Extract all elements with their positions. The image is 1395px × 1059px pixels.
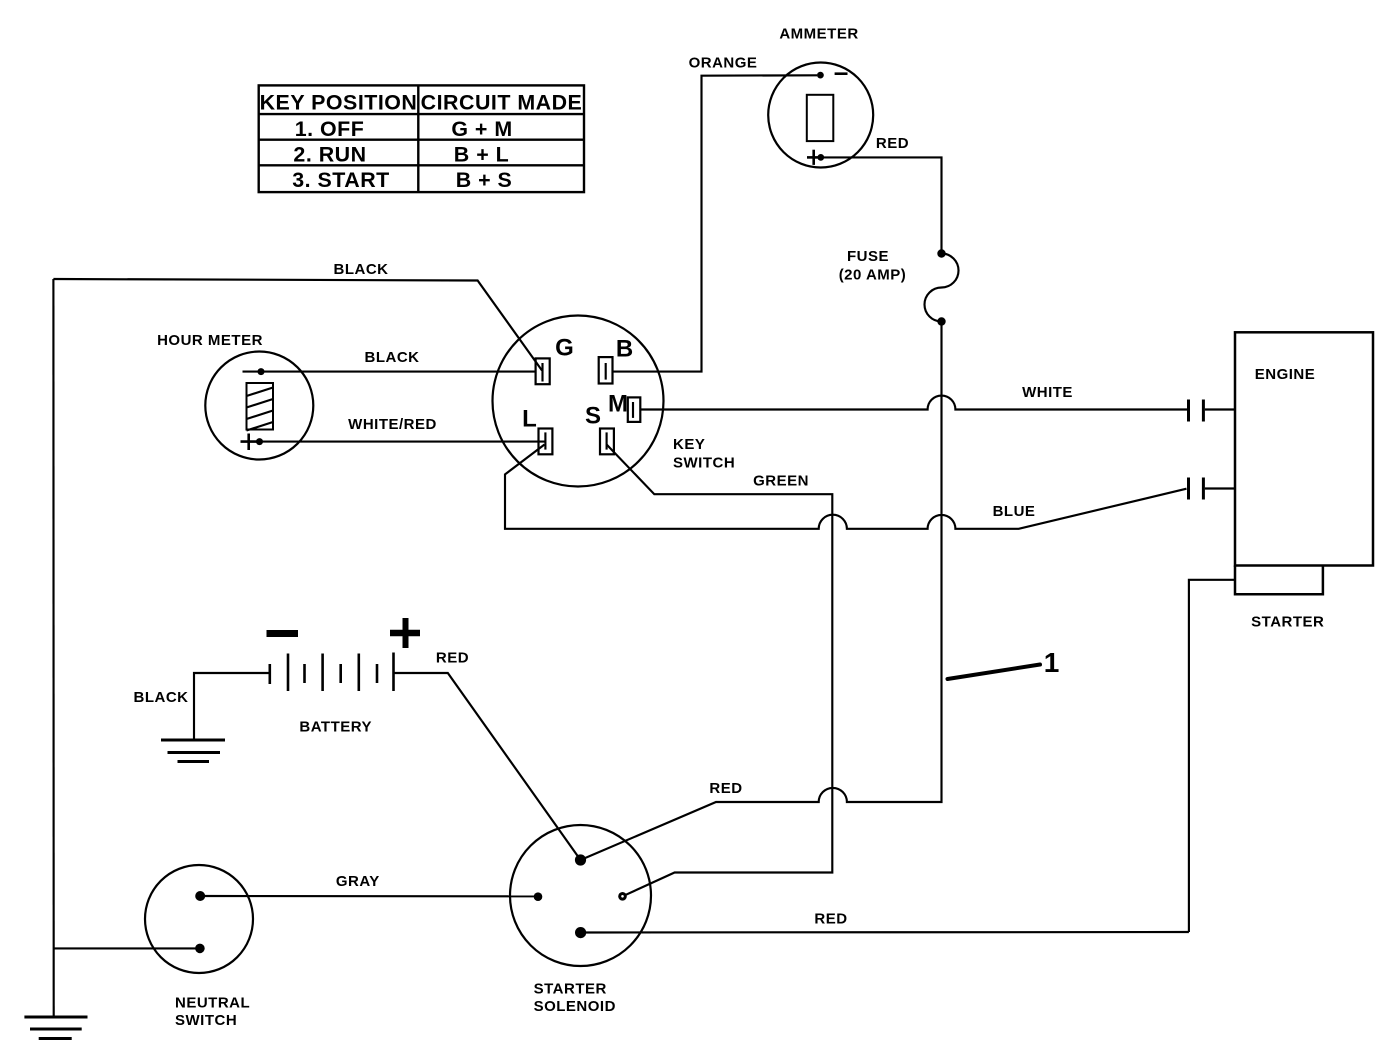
connector: blue to engine — [1189, 478, 1204, 500]
starter block — [1235, 566, 1323, 595]
wire orange: ammeter to key switch B — [613, 75, 818, 371]
neutral switch S2 — [145, 865, 253, 973]
svg-text:STARTER: STARTER — [1251, 614, 1324, 631]
wire red: battery to starter solenoid — [394, 673, 581, 860]
wire gray: neutral switch to starter solenoid — [200, 895, 538, 897]
svg-text:WHITE/RED: WHITE/RED — [348, 416, 437, 433]
wire green: key switch S to starter solenoid — [607, 445, 833, 897]
svg-text:ENGINE: ENGINE — [1255, 366, 1316, 383]
svg-text:RED: RED — [814, 911, 847, 928]
wire blue: key switch L to engine (hops over green + fuse wires) — [505, 445, 1187, 529]
wire white/red: hour meter to key switch L — [260, 441, 546, 443]
svg-text:STARTER: STARTER — [534, 981, 607, 998]
svg-text:BLUE: BLUE — [993, 503, 1036, 520]
wire: starter to red wire — [1189, 580, 1235, 932]
svg-text:3. START: 3. START — [292, 168, 390, 192]
wire black: battery to ground — [194, 673, 270, 740]
svg-text:WHITE: WHITE — [1022, 384, 1073, 401]
svg-text:BLACK: BLACK — [134, 689, 189, 706]
svg-text:BATTERY: BATTERY — [299, 719, 372, 736]
svg-text:S: S — [585, 403, 601, 430]
wire: left vertical frame — [52, 279, 54, 1017]
starter solenoid K1 — [510, 825, 651, 966]
svg-text:AMMETER: AMMETER — [779, 26, 858, 43]
terminal S — [600, 429, 614, 455]
svg-text:FUSE: FUSE — [847, 248, 889, 265]
connector: white to engine — [1189, 400, 1204, 422]
svg-text:G: G — [555, 335, 574, 362]
svg-text:SWITCH: SWITCH — [175, 1012, 237, 1029]
wire black: hour meter to key switch G — [261, 371, 536, 373]
svg-text:B + S: B + S — [456, 168, 513, 192]
battery minus sign — [267, 630, 299, 637]
svg-text:B + L: B + L — [454, 143, 509, 167]
svg-text:RED: RED — [436, 650, 469, 667]
svg-text:1. OFF: 1. OFF — [295, 117, 365, 141]
svg-text:HOUR METER: HOUR METER — [157, 332, 263, 349]
terminal G — [536, 358, 550, 384]
svg-text:(20 AMP): (20 AMP) — [839, 267, 907, 284]
svg-text:G + M: G + M — [451, 117, 512, 141]
svg-text:RED: RED — [709, 780, 742, 797]
ground (battery) — [161, 740, 225, 762]
svg-text:B: B — [616, 336, 633, 363]
hour meter M1 — [205, 352, 313, 460]
svg-text:BLACK: BLACK — [334, 261, 389, 278]
engine — [1235, 332, 1373, 565]
svg-text:GRAY: GRAY — [336, 873, 380, 890]
battery plus sign — [390, 630, 420, 637]
fuse F1 (20 amp) — [937, 249, 945, 257]
wire red: ammeter to fuse — [822, 157, 942, 253]
ground (bottom left) — [24, 1017, 87, 1039]
wire: neutral switch to left frame — [54, 947, 200, 949]
terminal M — [628, 397, 641, 422]
terminal L — [539, 429, 553, 455]
svg-text:L: L — [522, 406, 537, 433]
svg-text:CIRCUIT MADE: CIRCUIT MADE — [421, 91, 583, 115]
svg-text:SOLENOID: SOLENOID — [534, 998, 616, 1015]
svg-text:M: M — [608, 391, 628, 418]
wire white: key switch M to engine (hop over fuse wire) — [640, 396, 1187, 410]
svg-text:GREEN: GREEN — [753, 473, 809, 490]
wire red: fuse to starter solenoid (with hop over green wire) — [581, 322, 942, 861]
svg-text:2. RUN: 2. RUN — [293, 143, 366, 167]
key position table — [259, 85, 584, 192]
wire black: left frame to key switch G — [53, 279, 542, 371]
svg-text:RED: RED — [876, 135, 909, 152]
svg-text:ORANGE: ORANGE — [689, 55, 758, 72]
svg-text:KEY: KEY — [673, 436, 705, 453]
svg-text:KEY POSITION: KEY POSITION — [260, 91, 418, 115]
svg-text:1: 1 — [1044, 647, 1060, 678]
svg-text:NEUTRAL: NEUTRAL — [175, 995, 250, 1012]
callout 1 — [948, 665, 1041, 680]
svg-text:SWITCH: SWITCH — [673, 455, 735, 472]
key switch S1 — [493, 316, 664, 487]
svg-text:BLACK: BLACK — [365, 349, 420, 366]
ammeter A1 — [768, 63, 873, 168]
wire red: starter solenoid to starter — [581, 931, 1189, 934]
battery B1 — [270, 653, 394, 692]
terminal B — [599, 357, 613, 383]
